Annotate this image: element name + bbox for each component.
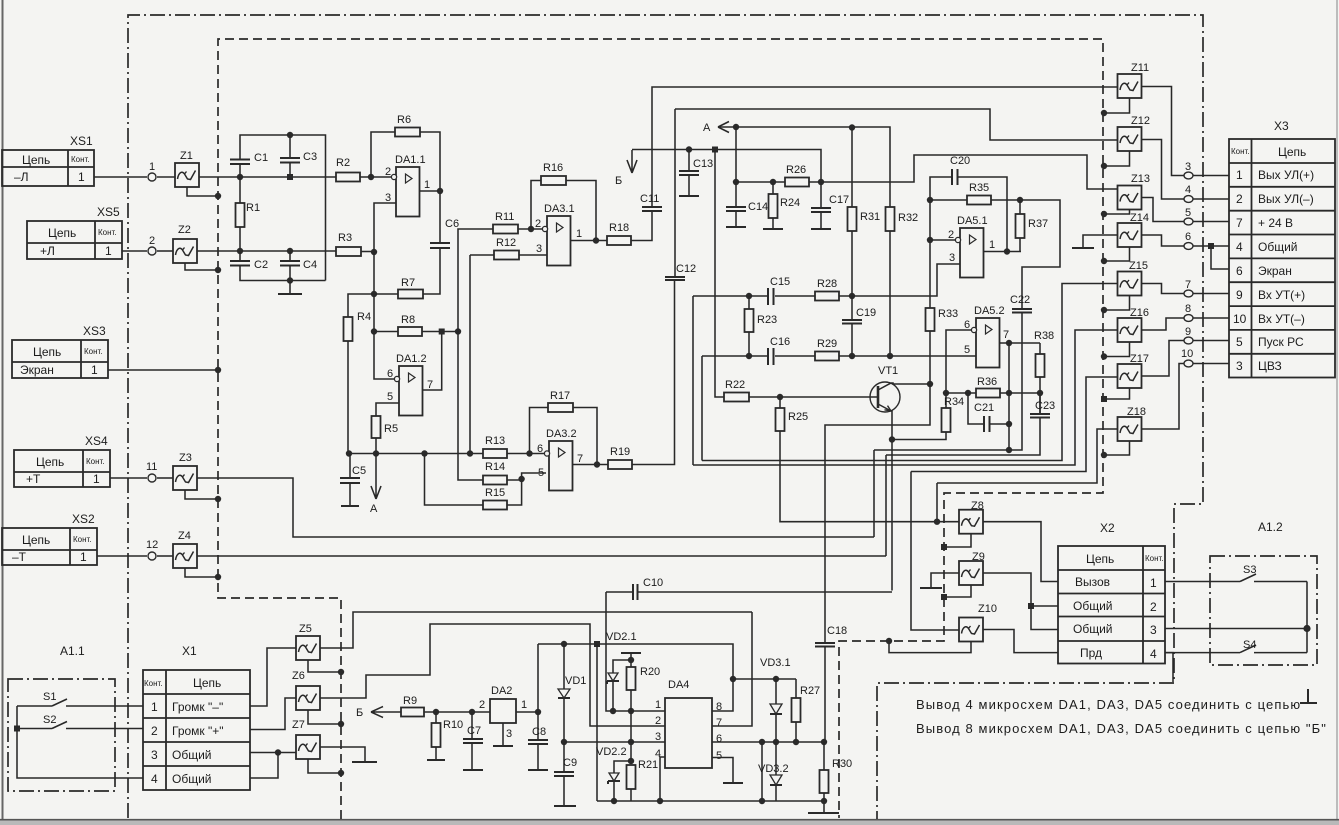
svg-text:5: 5	[538, 467, 544, 479]
node R17 tap	[526, 450, 532, 456]
wire Z11 out	[1142, 87, 1184, 176]
wire R8 line	[374, 331, 398, 333]
node C17 tap	[818, 179, 824, 185]
node R20 top	[628, 657, 634, 663]
resistor R28	[815, 292, 839, 301]
svg-text:R30: R30	[832, 758, 852, 770]
wire net A	[718, 127, 890, 206]
svg-text:5: 5	[964, 344, 970, 356]
svg-text:C17: C17	[829, 194, 849, 206]
svg-text:7: 7	[427, 379, 433, 391]
wire DA1.1 pin3 riser	[374, 203, 396, 252]
wire C20 loop	[930, 177, 1007, 252]
svg-text:Экран: Экран	[20, 363, 54, 377]
node pin4 rail	[657, 798, 663, 804]
svg-text:5: 5	[716, 750, 722, 762]
wire Z12 ground pin	[1104, 151, 1130, 166]
junction screen	[1101, 307, 1107, 313]
svg-text:2: 2	[479, 699, 485, 711]
svg-text:R24: R24	[780, 197, 800, 209]
svg-text:VD2.1: VD2.1	[606, 631, 637, 643]
wire Z7 out to ground	[320, 747, 365, 762]
resistor R12	[494, 251, 519, 260]
svg-text:–Т: –Т	[12, 550, 27, 564]
svg-text:2: 2	[655, 715, 661, 727]
node bottom rail	[287, 277, 293, 283]
wire R18 to C11	[631, 211, 652, 241]
arrow net B left	[371, 707, 401, 718]
node R24 top	[770, 179, 776, 185]
svg-text:A1.2: A1.2	[1258, 520, 1283, 534]
svg-text:C13: C13	[693, 158, 713, 170]
resistor R5	[372, 416, 381, 438]
wire R37 bottom	[1019, 238, 1021, 252]
svg-text:Конт.: Конт.	[1231, 147, 1250, 156]
svg-text:R23: R23	[757, 314, 777, 326]
junction on screen line	[215, 367, 221, 373]
resistor R15	[483, 501, 507, 510]
svg-text:1: 1	[655, 699, 661, 711]
junction screen	[1101, 353, 1107, 359]
svg-text:Экран: Экран	[1258, 264, 1292, 278]
wire DA5.2 output	[1000, 342, 1041, 344]
junction on screen line	[215, 574, 221, 580]
node pin5	[518, 476, 524, 482]
wire Z8 out to X2	[983, 522, 1058, 582]
switch S2	[17, 722, 143, 729]
wire R9 to DA2	[424, 711, 490, 713]
capacitor C10	[633, 584, 638, 600]
node C14 riser tap	[733, 124, 739, 130]
svg-text:R1: R1	[246, 202, 260, 214]
wire S left rail	[17, 706, 143, 778]
capacitor C18	[815, 643, 835, 647]
svg-text:Z10: Z10	[978, 603, 997, 615]
capacitor C3	[280, 158, 300, 163]
resistor R35	[967, 196, 991, 205]
resistor R6	[395, 128, 420, 137]
wire R3 to bus	[361, 251, 374, 253]
riser Z3 wire up	[873, 450, 875, 537]
wire R33 bottom	[929, 331, 931, 384]
svg-text:Z13: Z13	[1131, 173, 1150, 185]
wire Z7 ground pin	[308, 759, 341, 773]
node R32 bottom	[887, 353, 893, 359]
svg-text:6: 6	[964, 319, 970, 331]
resistor R34	[945, 393, 947, 408]
svg-text:R38: R38	[1034, 330, 1054, 342]
svg-text:Вывод 8 микросхем DA1, DA3, DA: Вывод 8 микросхем DA1, DA3, DA5 соединит…	[916, 721, 1327, 736]
transistor VT1	[870, 365, 900, 412]
chip DA4	[665, 698, 712, 768]
resistor R4	[344, 317, 353, 341]
wire Z6 ground pin	[308, 710, 341, 724]
filter Z17	[1118, 364, 1142, 388]
svg-text:2: 2	[948, 229, 954, 241]
node C21 right	[1006, 421, 1012, 427]
filter Z4	[173, 544, 197, 568]
svg-text:Z11: Z11	[1131, 62, 1149, 74]
node R34 wire	[889, 436, 895, 442]
wire R15 loop	[425, 454, 522, 506]
filter Z11	[1118, 74, 1142, 98]
wire Z3 ground pin	[185, 490, 218, 499]
wire screen fork to Ekran row	[1211, 246, 1229, 269]
capacitor C20	[952, 169, 958, 185]
switch S3	[1165, 574, 1307, 582]
svg-text:S3: S3	[1243, 564, 1256, 576]
svg-text:4: 4	[1150, 647, 1157, 661]
svg-text:Цепь: Цепь	[36, 455, 64, 469]
svg-text:Конт.: Конт.	[71, 155, 90, 164]
node C1 on line 1	[237, 174, 243, 180]
svg-text:DA1.2: DA1.2	[396, 353, 427, 365]
wire Z9 ground pin	[944, 585, 971, 597]
ground at Z9 input	[931, 573, 959, 588]
node R11 riser	[455, 328, 461, 334]
node R6 tap	[368, 174, 374, 180]
junction screen dash	[886, 638, 892, 644]
wire DA4 pin4	[660, 757, 665, 801]
svg-text:1: 1	[91, 363, 98, 377]
svg-text:C14: C14	[748, 201, 768, 213]
capacitor C9	[563, 742, 565, 772]
wire Z17 ground pin	[1104, 388, 1130, 399]
svg-text:VD3.1: VD3.1	[760, 657, 791, 669]
svg-text:3: 3	[949, 252, 955, 264]
wire R31 bottom	[851, 231, 853, 296]
svg-text:R29: R29	[817, 338, 837, 350]
svg-text:5: 5	[1185, 207, 1191, 219]
resistor R26	[785, 178, 809, 187]
svg-text:Конт.: Конт.	[1145, 554, 1164, 563]
ground below R24	[772, 218, 774, 229]
svg-text:R35: R35	[969, 182, 989, 194]
svg-text:1: 1	[78, 170, 85, 184]
diode VD1	[563, 644, 565, 689]
svg-text:Z7: Z7	[292, 719, 305, 731]
capacitor C14	[735, 182, 737, 207]
resistor R21	[627, 765, 636, 789]
riser to Z16 wire	[692, 296, 694, 465]
filter Z12	[1118, 127, 1142, 151]
resistor R36	[976, 389, 1000, 398]
pin circle 11	[148, 474, 156, 482]
wire input net y356	[702, 355, 976, 357]
diode VD3.1	[775, 679, 777, 704]
svg-text:R34: R34	[944, 396, 964, 408]
wire S3 to S4	[1306, 582, 1308, 653]
svg-text:R10: R10	[443, 719, 463, 731]
svg-text:Прд: Прд	[1080, 646, 1102, 660]
node C19 bottom	[849, 353, 855, 359]
node C4 on line 2	[287, 248, 293, 254]
node R16 tap	[528, 226, 534, 232]
resistor R1	[239, 177, 241, 203]
svg-text:R25: R25	[788, 411, 808, 423]
node C20 riser	[1004, 248, 1010, 254]
wire C11 top to line B1	[652, 87, 1118, 207]
wire C19 bottom	[851, 324, 853, 357]
wire C18 bottom	[824, 647, 826, 743]
wire pin4 loop riser	[761, 742, 763, 801]
svg-text:XS3: XS3	[83, 324, 106, 338]
svg-text:+ 24 В: + 24 В	[1258, 216, 1293, 230]
svg-text:VD2.2: VD2.2	[596, 746, 627, 758]
bottom rail left	[597, 800, 660, 802]
arrow net A down	[371, 454, 381, 500]
wire DA2 pin3 ground	[502, 723, 504, 746]
wire line to Z12	[675, 109, 1118, 140]
wire Z16 out	[1142, 318, 1184, 330]
wire Z17 out	[1142, 341, 1184, 377]
svg-text:S2: S2	[43, 714, 56, 726]
svg-text:4: 4	[1236, 240, 1243, 254]
wire C10 line	[606, 591, 892, 593]
svg-text:Общий: Общий	[172, 772, 212, 786]
wire C23 to bundle	[886, 418, 1040, 456]
node output DA3.1	[593, 237, 599, 243]
wire X1 row3 to Z7	[250, 752, 296, 754]
svg-text:R36: R36	[977, 376, 997, 388]
svg-text:C2: C2	[254, 259, 268, 271]
junction screen	[338, 770, 344, 776]
svg-text:C1: C1	[254, 152, 268, 164]
capacitor C7	[471, 712, 473, 739]
svg-text:1: 1	[424, 179, 430, 191]
wire Z15 ground pin	[1104, 296, 1130, 311]
resistor R18	[607, 236, 631, 245]
capacitor C17	[820, 182, 822, 208]
resistor R27	[795, 679, 797, 698]
connector table X3	[1229, 119, 1335, 378]
node S loop	[1303, 625, 1310, 632]
svg-text:A1.1: A1.1	[60, 644, 85, 658]
node pin4 loop bottom	[759, 798, 765, 804]
node on C22 wire	[1006, 447, 1012, 453]
pin circle 1	[148, 173, 156, 181]
svg-text:3: 3	[151, 748, 158, 762]
node R38 bottom	[1037, 390, 1043, 396]
svg-text:1: 1	[93, 472, 100, 486]
svg-text:8: 8	[1185, 303, 1191, 315]
svg-text:+Л: +Л	[40, 244, 55, 258]
capacitor C16	[768, 348, 774, 365]
svg-text:C20: C20	[950, 155, 970, 167]
svg-text:4: 4	[1185, 184, 1191, 196]
svg-text:R33: R33	[938, 308, 958, 320]
svg-text:R20: R20	[640, 666, 660, 678]
capacitor C23	[1039, 393, 1041, 414]
svg-text:C12: C12	[676, 263, 696, 275]
wire Z6 out	[320, 624, 665, 726]
wire R35 loop	[930, 200, 1060, 309]
node pin4 loop top	[759, 739, 765, 745]
node C18 R30	[821, 739, 827, 745]
contact oval 9	[1183, 340, 1229, 342]
resistor R3	[336, 247, 361, 256]
svg-text:R22: R22	[725, 379, 745, 391]
wire net B line	[632, 150, 821, 183]
filter Z18	[1118, 417, 1142, 441]
svg-text:R11: R11	[495, 211, 514, 223]
wire DA5.1 pin2	[930, 239, 956, 241]
wire R20 bottom	[630, 690, 632, 711]
node R36 right	[1006, 390, 1012, 396]
capacitor C1	[230, 160, 250, 165]
node fork rows 2-3	[1028, 603, 1034, 609]
svg-text:Z2: Z2	[178, 224, 191, 236]
wire Z14 out	[1142, 235, 1184, 246]
wire Z10 out to X2	[983, 630, 1058, 653]
op-amp DA1.2	[399, 366, 423, 416]
wire R20 R21 link	[630, 711, 632, 761]
wire supply rail y644	[538, 644, 733, 679]
filter Z2	[173, 239, 197, 263]
wire DA3.2 output	[573, 464, 609, 466]
svg-text:DA3.2: DA3.2	[546, 428, 577, 440]
svg-text:3: 3	[506, 728, 512, 740]
wire R32 bottom	[889, 231, 891, 356]
node C7	[469, 709, 475, 715]
wire R30 bottom	[823, 793, 825, 813]
svg-text:R28: R28	[817, 278, 837, 290]
resistor R38	[1039, 343, 1041, 354]
wire Z17 input run	[911, 377, 1118, 472]
svg-text:Цепь: Цепь	[1278, 145, 1306, 159]
svg-text:Вх УТ(+): Вх УТ(+)	[1258, 288, 1305, 302]
node C13 top	[686, 146, 692, 152]
svg-text:7: 7	[716, 717, 722, 729]
node R23 bottom	[746, 353, 752, 359]
wire Z13 ground pin	[1104, 210, 1130, 215]
svg-text:Общий: Общий	[1073, 622, 1113, 636]
op-amp DA3.1	[547, 216, 571, 266]
svg-text:Z3: Z3	[179, 452, 192, 464]
contact oval 4	[1183, 198, 1229, 200]
node VD3.1 top	[773, 676, 779, 682]
svg-text:S1: S1	[43, 691, 56, 703]
svg-text:Z5: Z5	[299, 623, 312, 635]
node VD1 bottom	[561, 739, 567, 745]
svg-text:9: 9	[1185, 326, 1191, 338]
bottom rail right	[660, 800, 823, 802]
chip DA2	[490, 699, 516, 723]
svg-text:X1: X1	[182, 644, 197, 658]
wire fork to row3	[1031, 606, 1058, 630]
wire C22 to bundle	[874, 313, 1022, 451]
riser R12	[469, 255, 471, 454]
svg-text:Конт.: Конт.	[144, 679, 163, 688]
resistor R31	[851, 128, 853, 208]
filter Z10	[959, 618, 983, 642]
svg-text:1: 1	[576, 228, 582, 240]
svg-text:Конт.: Конт.	[86, 457, 105, 466]
resistor R14	[483, 476, 507, 485]
svg-text:R15: R15	[485, 487, 505, 499]
wire Z1 out	[199, 176, 336, 178]
svg-text:7: 7	[1003, 329, 1009, 341]
ground below C9	[563, 776, 565, 806]
capacitor C19	[851, 296, 853, 320]
svg-text:R3: R3	[338, 232, 352, 244]
wire Z10 ground pin	[889, 641, 971, 653]
svg-text:VD3.2: VD3.2	[758, 763, 789, 775]
resistor R24	[772, 182, 774, 194]
connector table XS3	[12, 324, 108, 378]
node VD3.1 bottom	[773, 739, 779, 745]
wire DA1.1 output to C6	[420, 191, 441, 243]
svg-text:S4: S4	[1243, 639, 1256, 651]
resistor R16	[541, 176, 566, 185]
svg-text:Z4: Z4	[178, 530, 191, 542]
wire Z18 out	[1142, 364, 1184, 430]
node C2 on line 2	[237, 248, 243, 254]
wire Z14 ground pin	[1104, 247, 1130, 261]
svg-text:DA3.1: DA3.1	[544, 203, 575, 215]
svg-text:XS4: XS4	[85, 434, 108, 448]
svg-text:C23: C23	[1035, 400, 1055, 412]
feedback R6 loop	[371, 132, 440, 188]
node rail end	[821, 798, 827, 804]
wire R11 line	[458, 229, 545, 332]
wire C12 top riser	[674, 109, 676, 277]
capacitor C5	[349, 454, 351, 479]
wire Z18 ground pin	[1104, 441, 1130, 455]
svg-text:Z1: Z1	[180, 150, 193, 162]
svg-text:5: 5	[387, 391, 393, 403]
node VD2.2 bottom	[611, 798, 617, 804]
svg-text:Громк "+": Громк "+"	[172, 724, 224, 738]
wire R2 to DA1.1 pin2	[360, 176, 393, 178]
wire R22 riser	[715, 150, 724, 398]
wire DA4 pin3	[564, 741, 665, 743]
svg-text:Вх УТ(–): Вх УТ(–)	[1258, 312, 1305, 326]
junction screen	[1101, 211, 1107, 217]
wire R36 to R38 bottom node	[1009, 392, 1040, 394]
svg-text:9: 9	[1236, 288, 1243, 302]
svg-text:Z9: Z9	[972, 551, 985, 563]
wire XS3 to screen	[108, 369, 218, 371]
svg-text:+Т: +Т	[26, 472, 41, 486]
resistor R30	[823, 742, 825, 770]
node R35 tap left	[927, 197, 933, 203]
wire XS2 to Z4	[97, 555, 147, 557]
svg-text:R26: R26	[786, 164, 806, 176]
resistor R13	[483, 449, 507, 458]
wire X2 row3 to A1.2	[1165, 628, 1307, 630]
wire DA4 pin6	[712, 741, 823, 743]
riser Z18 to Z8 net	[936, 483, 938, 522]
svg-text:DA4: DA4	[668, 679, 689, 691]
svg-text:C19: C19	[856, 307, 876, 319]
node row3	[275, 749, 281, 755]
svg-text:C18: C18	[827, 625, 847, 637]
wire R12 line	[470, 254, 549, 256]
wire bus to DA1.2 pin6	[374, 332, 396, 379]
svg-text:Z15: Z15	[1129, 260, 1148, 272]
svg-text:6: 6	[1185, 231, 1191, 243]
svg-text:1: 1	[1150, 576, 1157, 590]
node R31 tap on net A	[849, 124, 855, 130]
svg-text:C21: C21	[974, 402, 994, 414]
wire row4 link	[250, 753, 278, 779]
node R36 wire left	[943, 390, 949, 396]
ground symbol in note	[1300, 689, 1317, 703]
resistor R33	[929, 240, 931, 308]
svg-text:Цепь: Цепь	[1086, 552, 1114, 566]
svg-text:6: 6	[716, 733, 722, 745]
